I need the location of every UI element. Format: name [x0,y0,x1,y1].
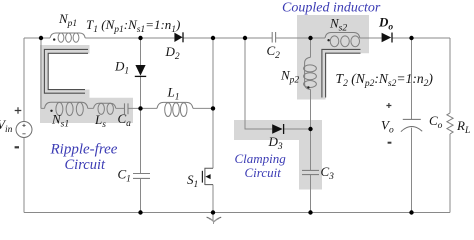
label Vo with polarity [386,103,391,108]
winding Ns1 [45,102,88,115]
capacitor C3 [302,170,319,174]
svg-text:Circuit: Circuit [65,157,107,173]
junction: middle rail / D1-C1 branch [138,106,142,110]
source Vin [16,122,32,138]
polarity dot Ns2 [327,39,329,41]
junction: bottom rail / C1 branch [138,210,142,214]
junction: clamping node D3 / C3 [308,127,312,131]
inductor L1 [157,102,193,116]
wire: switch branch vertical [212,38,214,213]
label Vin with polarity [15,107,22,114]
shaded region: clamping circuit block [234,120,322,190]
inductor Ls [94,103,116,114]
diode D2 [174,32,183,42]
transistor S1 (MOSFET) [202,168,213,185]
polarity dot Ns1 [50,110,52,112]
wire: bottom rail [24,212,450,214]
ground [207,213,222,225]
capacitor C1 [133,174,150,179]
svg-text:Ripple-free: Ripple-free [50,142,118,158]
transformer T1 core [44,49,88,93]
wire: left input branch [23,38,25,213]
junction: top rail / output node [409,36,413,40]
shaded region: coupled inductor block [297,15,369,100]
wire: output capacitor branch vertical [411,38,413,213]
wire: D1 / C1 branch vertical [140,38,142,213]
junction: top rail / switch branch [211,36,215,40]
capacitor C2 [272,32,275,43]
wire: middle rail (ripple-free row) [41,107,213,109]
polarity dot Np2 [307,86,309,88]
diode D3 [272,124,283,134]
wire: clamping branch [245,38,311,129]
junction: bottom rail / C3 branch [308,210,312,214]
svg-text:Coupled inductor: Coupled inductor [282,1,381,16]
shaded region: ripple-free circuit block [40,45,133,123]
winding Np1 [50,33,85,42]
junction: top rail / clamping branch [243,36,247,40]
junction: top rail / D1 branch [138,36,142,40]
capacitor Co (output, polarized) [401,119,422,131]
capacitor Ca [125,103,129,114]
diode D1 [135,65,146,76]
transformer T2 core [322,49,361,97]
junction: top rail / Np2 branch [308,36,312,40]
wire: top rail [24,37,450,39]
resistor RL [447,113,453,134]
wire: Ns1 branch vertical [40,38,42,108]
polarity dot Np1 [53,38,55,40]
svg-text:Circuit: Circuit [245,165,282,180]
junction: bottom rail / Co branch [409,210,413,214]
diode Do [382,33,392,43]
svg-text:Clamping: Clamping [235,151,287,166]
wire: Np2 / C3 branch vertical [310,38,312,213]
junction: middle rail / switch branch [211,106,215,110]
winding Ns2 [325,33,360,47]
junction: top rail / Ns1 branch [39,36,43,40]
winding Np2 [304,57,317,89]
wire: load branch vertical [449,38,451,213]
junction: bottom rail / ground [211,210,215,214]
